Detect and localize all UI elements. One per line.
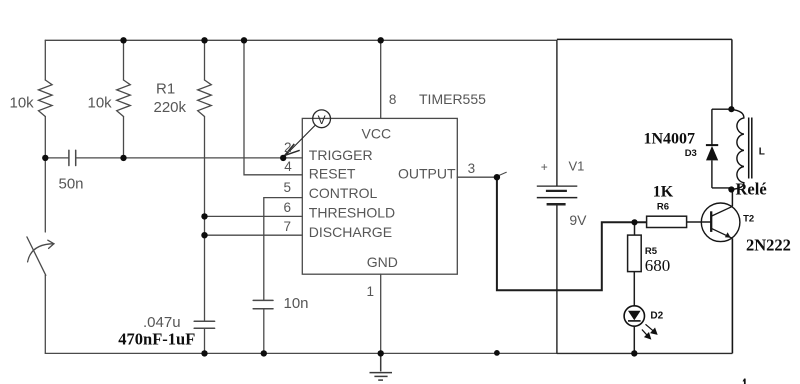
- node trigger left: [42, 155, 48, 161]
- wire top rail left: [45, 39, 557, 41]
- svg-text:9V: 9V: [569, 212, 587, 228]
- svg-text:3: 3: [468, 161, 476, 176]
- svg-text:470nF-1uF: 470nF-1uF: [118, 330, 195, 349]
- capacitor 10n: [253, 300, 273, 308]
- svg-text:R6: R6: [657, 201, 669, 212]
- node bottom / LED: [631, 350, 637, 356]
- svg-text:5: 5: [284, 180, 292, 195]
- svg-text:50n: 50n: [59, 176, 84, 193]
- stray ground tip at bottom edge: [743, 379, 745, 384]
- LED D2: [624, 306, 644, 326]
- wire bottom rail right (dark): [557, 352, 733, 354]
- svg-text:DISCHARGE: DISCHARGE: [309, 224, 392, 240]
- transistor Q/T2 2N222: [701, 190, 740, 242]
- wire gnd pin 1: [380, 274, 382, 353]
- svg-text:TRIGGER: TRIGGER: [309, 147, 373, 163]
- node bottom / cap 047u: [201, 350, 207, 356]
- labels: gray schematic text: [10, 81, 588, 332]
- wire bottom rail left: [45, 352, 557, 354]
- node relay bottom: [728, 186, 734, 192]
- wire LED to rail: [633, 326, 635, 353]
- ground (under 555 pin 1): [370, 353, 393, 380]
- wire output to base path (dark): [497, 177, 647, 290]
- wire output pin 3: [457, 176, 497, 178]
- wire discharge node down to cap: [204, 235, 206, 321]
- wire switch bottom stub: [44, 275, 46, 353]
- capacitor 50n: [69, 150, 76, 165]
- wire emitter to bottom rail: [731, 238, 733, 353]
- svg-text:V1: V1: [569, 158, 585, 173]
- wire trigger left segment: [45, 157, 69, 159]
- svg-text:2: 2: [284, 140, 292, 155]
- wire reset drop: [244, 40, 302, 175]
- wire vcc drop pin 8: [380, 40, 382, 118]
- switch motion arc: [28, 244, 54, 262]
- svg-text:T2: T2: [743, 214, 754, 225]
- node threshold: [201, 213, 207, 219]
- svg-text:7: 7: [284, 219, 292, 234]
- wire R6 to base: [687, 221, 712, 223]
- wire R5 top lead: [634, 222, 636, 235]
- svg-text:OUTPUT: OUTPUT: [398, 166, 456, 182]
- resistor R6 1K (box): [647, 216, 687, 227]
- wire left rail to resistor: [44, 40, 46, 80]
- svg-text:10k: 10k: [88, 95, 113, 112]
- node bottom / cap 10n: [261, 350, 267, 356]
- svg-text:Relé: Relé: [736, 180, 767, 199]
- wire 10n bottom: [263, 309, 265, 354]
- diode 1N4007 D3: [706, 109, 732, 188]
- svg-text:D3: D3: [685, 148, 697, 159]
- output probe tick: [498, 172, 506, 176]
- svg-text:10n: 10n: [284, 295, 309, 312]
- svg-text:4: 4: [284, 159, 292, 174]
- wire discharge pin: [205, 234, 303, 236]
- svg-text:VCC: VCC: [362, 126, 392, 142]
- node R5 R6: [631, 219, 637, 225]
- svg-text:R1: R1: [156, 81, 175, 98]
- node top rail / vcc drop: [378, 37, 384, 43]
- svg-text:L: L: [759, 146, 765, 157]
- node output pin 3: [494, 174, 500, 180]
- node top rail / R2: [120, 37, 126, 43]
- wire threshold node to discharge node: [204, 216, 206, 235]
- wire R5 bottom lead: [633, 272, 635, 306]
- svg-text:680: 680: [645, 256, 671, 275]
- wire resistor2 top lead: [123, 40, 125, 80]
- wire resistor3 bottom to threshold node: [204, 117, 206, 217]
- voltmeter probe V at trigger: [284, 110, 330, 157]
- svg-text:V: V: [318, 113, 326, 127]
- svg-text:10k: 10k: [10, 95, 35, 112]
- wire threshold pin: [205, 215, 303, 217]
- wire battery positive lead: [556, 40, 558, 186]
- wire resistor3 top lead: [204, 40, 206, 80]
- node trigger / R2: [120, 155, 126, 161]
- capacitor .047u 470nF-1uF: [194, 321, 214, 328]
- wire relay feed drop: [731, 39, 733, 109]
- wire trigger right segment: [76, 157, 303, 159]
- labels: black bold: [118, 130, 791, 348]
- wire resistor1 bottom: [44, 117, 46, 158]
- wire cap .047u bottom: [204, 328, 206, 353]
- svg-text:1K: 1K: [653, 184, 674, 201]
- svg-text:1N4007: 1N4007: [644, 130, 696, 147]
- resistor R1 220k: [198, 80, 212, 117]
- relay coil L: [732, 110, 744, 190]
- svg-text:2N222: 2N222: [746, 235, 791, 254]
- svg-text:6: 6: [284, 200, 292, 215]
- node top rail / R1: [201, 37, 207, 43]
- svg-text:D2: D2: [650, 310, 663, 321]
- wire control pin to 10n: [264, 198, 303, 301]
- svg-text:.047u: .047u: [143, 314, 181, 331]
- node relay top: [728, 106, 734, 112]
- wire battery negative lead: [556, 204, 558, 353]
- node discharge: [201, 232, 207, 238]
- svg-text:8: 8: [389, 92, 397, 107]
- LED light arrows: [642, 324, 657, 338]
- switch blade: [27, 237, 46, 275]
- svg-text:TIMER555: TIMER555: [419, 91, 486, 107]
- node bottom / gnd: [378, 350, 384, 356]
- svg-text:THRESHOLD: THRESHOLD: [309, 205, 395, 221]
- wire switch top stub: [44, 158, 46, 232]
- svg-text:RESET: RESET: [309, 166, 356, 182]
- node top rail / reset drop: [241, 37, 247, 43]
- switch arrow head: [48, 240, 54, 248]
- resistor 10k #2: [117, 80, 131, 117]
- svg-text:GND: GND: [367, 254, 398, 270]
- relay core bars: [748, 118, 750, 179]
- node trigger pin 2: [280, 155, 286, 161]
- resistor R5 680 (box): [628, 235, 642, 272]
- battery V1 9V: [537, 186, 578, 204]
- svg-text:220k: 220k: [154, 99, 187, 116]
- svg-text:1: 1: [367, 284, 375, 299]
- wire resistor2 bottom lead: [123, 117, 125, 158]
- resistor 10k #1: [39, 80, 53, 117]
- wire top rail right (dark): [557, 38, 732, 40]
- svg-text:+: +: [541, 160, 548, 174]
- op-amp timer IC box U1 TIMER555: [302, 118, 457, 274]
- node bottom stray: [494, 350, 500, 356]
- svg-text:CONTROL: CONTROL: [309, 185, 378, 201]
